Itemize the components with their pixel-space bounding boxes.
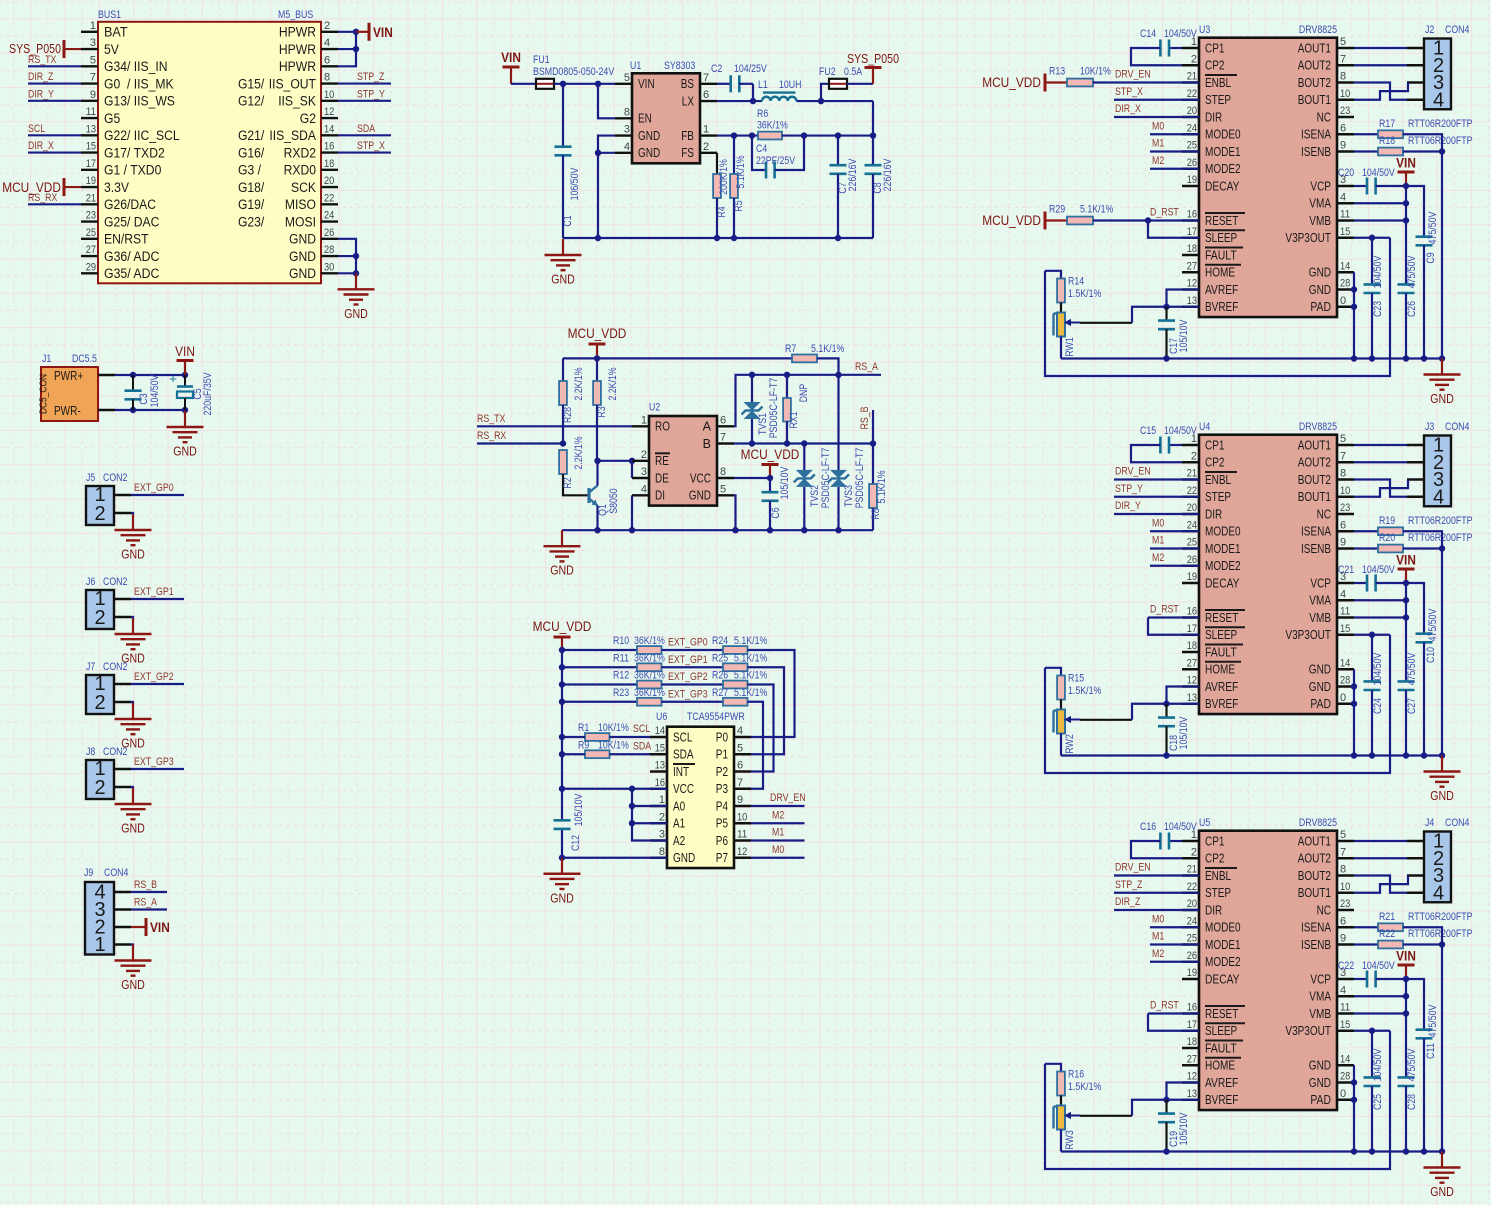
svg-text:AOUT2: AOUT2	[1298, 456, 1331, 470]
svg-text:26: 26	[324, 227, 334, 239]
net label D_RST / wire to RESET SLEEP	[1148, 604, 1199, 635]
svg-text:27: 27	[1187, 1053, 1197, 1065]
resistor R4 200K/1%	[713, 153, 730, 238]
TVS diode TVS2 PSD05C-LF-T7	[794, 444, 832, 531]
svg-text:5: 5	[737, 742, 743, 754]
connector J9 CON4	[84, 867, 131, 956]
svg-text:CON2: CON2	[103, 576, 127, 588]
svg-text:RXD0: RXD0	[284, 163, 316, 178]
svg-text:EXT_GP3: EXT_GP3	[668, 688, 708, 700]
wire VIN to VMA VMB	[1354, 979, 1409, 1077]
capacitor C10 475/50V VIN bulk	[1406, 583, 1439, 759]
svg-text:GND: GND	[1430, 789, 1454, 803]
svg-text:CP2: CP2	[1205, 59, 1225, 73]
svg-text:27: 27	[1187, 657, 1197, 669]
svg-text:15: 15	[655, 742, 665, 754]
svg-text:AVREF: AVREF	[1205, 680, 1239, 694]
svg-text:16: 16	[1187, 606, 1197, 618]
capacitor C12 105/10V	[554, 793, 586, 851]
svg-text:MCU_VDD: MCU_VDD	[533, 618, 592, 634]
svg-text:21: 21	[1187, 468, 1197, 480]
wire R7 to RS_A	[817, 358, 839, 374]
svg-text:8: 8	[324, 72, 330, 84]
svg-text:M2: M2	[772, 809, 784, 821]
svg-text:PAD: PAD	[1310, 697, 1331, 711]
svg-text:C15: C15	[1140, 425, 1156, 437]
svg-text:104/25V: 104/25V	[734, 63, 767, 75]
svg-text:11: 11	[86, 106, 96, 118]
svg-text:DE: DE	[655, 471, 669, 485]
svg-text:EXT_GP3: EXT_GP3	[134, 756, 174, 768]
svg-text:EXT_GP0: EXT_GP0	[134, 482, 174, 494]
svg-text:RS_A: RS_A	[134, 897, 158, 909]
wire BS cap to LX	[750, 84, 756, 104]
svg-text:4: 4	[1433, 882, 1444, 904]
svg-text:R17: R17	[1379, 118, 1395, 130]
svg-text:104/50V: 104/50V	[1362, 564, 1395, 576]
svg-text:22: 22	[1187, 485, 1197, 497]
svg-text:8: 8	[1340, 864, 1346, 876]
svg-text:STP_Z: STP_Z	[1115, 879, 1143, 891]
svg-text:A0: A0	[673, 799, 685, 813]
svg-text:RTT06R200FTP: RTT06R200FTP	[1408, 118, 1473, 130]
svg-text:MCU_VDD: MCU_VDD	[568, 325, 627, 341]
svg-text:RW2: RW2	[1064, 734, 1076, 754]
svg-text:AOUT2: AOUT2	[1298, 852, 1331, 866]
svg-text:R26: R26	[712, 670, 728, 682]
svg-text:VMB: VMB	[1309, 1007, 1331, 1021]
svg-text:NC: NC	[1317, 903, 1331, 917]
svg-text:RTT06R200FTP: RTT06R200FTP	[1408, 515, 1473, 527]
svg-text:26: 26	[1187, 157, 1197, 169]
svg-text:VMA: VMA	[1309, 990, 1331, 1004]
net label M2 / wire to MODE2	[1150, 552, 1199, 566]
svg-text:ISENA: ISENA	[1301, 921, 1332, 935]
wire MCU_VDD pullup rail	[563, 355, 792, 361]
svg-text:DC5.5: DC5.5	[72, 353, 97, 365]
svg-text:R29: R29	[1049, 204, 1065, 216]
svg-text:GND: GND	[289, 266, 316, 281]
svg-text:RESET: RESET	[1205, 611, 1239, 625]
svg-text:R12: R12	[613, 670, 629, 682]
svg-text:BSMD0805-050-24V: BSMD0805-050-24V	[533, 66, 615, 78]
svg-text:15: 15	[1340, 623, 1350, 635]
svg-text:10: 10	[324, 89, 334, 101]
svg-text:DECAY: DECAY	[1205, 972, 1240, 986]
svg-text:J1: J1	[42, 353, 51, 365]
resistor R14 1.5K/1%	[1045, 271, 1101, 313]
svg-text:GND: GND	[638, 146, 660, 160]
svg-text:R4: R4	[716, 206, 728, 217]
resistor R7 5.1K/1% pullup	[785, 343, 844, 362]
wire VIN to FU1	[511, 83, 536, 85]
capacitor C19 105/10V vref	[1158, 1100, 1190, 1155]
svg-text:22: 22	[1187, 881, 1197, 893]
svg-text:GND: GND	[121, 548, 145, 562]
svg-text:EXT_GP2: EXT_GP2	[134, 671, 174, 683]
svg-text:ISENB: ISENB	[1301, 542, 1331, 556]
svg-text:36K/1%: 36K/1%	[634, 635, 665, 647]
wire GND pins chain	[1351, 1065, 1357, 1154]
svg-text:13: 13	[86, 123, 96, 135]
svg-text:17: 17	[1187, 623, 1197, 635]
svg-text:MCU_VDD: MCU_VDD	[982, 74, 1041, 90]
svg-text:CON4: CON4	[1445, 817, 1469, 829]
svg-text:G35/ ADC: G35/ ADC	[104, 266, 160, 281]
net label D_RST / wire to RESET SLEEP	[1093, 207, 1199, 238]
wire VCC node	[734, 475, 773, 481]
svg-text:IIS_OUT: IIS_OUT	[269, 76, 316, 91]
net label EXT_GP2 / wire	[662, 671, 724, 685]
svg-text:STP_Y: STP_Y	[1115, 483, 1143, 495]
svg-text:CON4: CON4	[1445, 421, 1469, 433]
TVS diode TVS1 PSD05C-LF-T7	[742, 375, 781, 444]
svg-text:RS_RX: RS_RX	[28, 192, 58, 204]
connector J3 CON4	[1407, 421, 1469, 508]
capacitor C17 105/10V vref	[1158, 307, 1190, 362]
svg-text:STEP: STEP	[1205, 490, 1231, 504]
svg-text:5: 5	[1340, 36, 1346, 48]
svg-text:RE: RE	[655, 454, 669, 468]
svg-text:M1: M1	[1152, 535, 1164, 547]
net label EXT_GP3 / wire from J8 pin 1	[131, 756, 184, 769]
capacitor C25 104/50V on V3P3OUT	[1364, 1031, 1385, 1155]
net label M0 / wire to MODE0	[1150, 913, 1199, 927]
ground at U6	[544, 858, 581, 906]
connector J7 CON2	[86, 661, 131, 714]
svg-text:226/16V: 226/16V	[882, 158, 894, 191]
svg-text:4: 4	[324, 37, 330, 49]
wire VIN to VMA VMB	[1354, 186, 1409, 284]
wire sense resistors to ground	[1403, 531, 1445, 758]
svg-text:21: 21	[1187, 71, 1197, 83]
svg-text:DIR_Y: DIR_Y	[1115, 500, 1141, 512]
svg-text:7: 7	[737, 777, 743, 789]
wire V3P3OUT loop to R15	[1045, 635, 1390, 773]
svg-text:STP_X: STP_X	[1115, 86, 1143, 98]
svg-text:13: 13	[655, 760, 665, 772]
svg-text:G25/ DAC: G25/ DAC	[104, 214, 160, 229]
svg-text:STP_Z: STP_Z	[357, 71, 385, 83]
svg-text:U4: U4	[1199, 421, 1210, 433]
svg-text:17: 17	[1187, 1019, 1197, 1031]
wire U3 ground rail	[1061, 357, 1442, 359]
wire GND pins 26/28/30	[338, 239, 359, 277]
potentiometer RW2	[1054, 710, 1081, 756]
svg-text:P4: P4	[716, 799, 728, 813]
svg-text:VMB: VMB	[1309, 214, 1331, 228]
svg-text:28: 28	[1340, 278, 1350, 290]
net label RS_B rotated	[859, 407, 871, 430]
svg-text:104/50V: 104/50V	[1372, 255, 1384, 288]
capacitor C24 104/50V on V3P3OUT	[1364, 635, 1385, 759]
svg-text:MCU_VDD: MCU_VDD	[741, 446, 800, 462]
svg-text:MODE1: MODE1	[1205, 145, 1241, 159]
capacitor C6 105/10V	[762, 466, 792, 533]
svg-text:MCU_VDD: MCU_VDD	[982, 212, 1041, 228]
svg-text:22: 22	[324, 192, 334, 204]
wire BOUT1 to J4 pin 3	[1354, 876, 1408, 893]
resistor R19 RTT06R200FTP sense A	[1354, 515, 1473, 535]
svg-text:R6: R6	[757, 108, 768, 120]
svg-text:R3: R3	[596, 406, 608, 417]
wire EXT_GP2 to U6 P2	[748, 685, 774, 772]
wire AOUT1 to J3 pin 1	[1354, 444, 1407, 446]
svg-text:R23: R23	[613, 687, 629, 699]
svg-text:18: 18	[1187, 243, 1197, 255]
svg-text:DRV8825: DRV8825	[1299, 24, 1337, 36]
power flag SYS_P050 at BUS1 pin 3	[9, 40, 81, 58]
resistor R23 36K/1% pullup	[562, 687, 665, 706]
wire AVREF BVREF node	[1163, 290, 1199, 310]
capacitor C2 104/25V bootstrap	[711, 63, 767, 92]
svg-text:FAULT: FAULT	[1205, 248, 1237, 262]
svg-text:19: 19	[1187, 571, 1197, 583]
ground at BUS1	[338, 273, 375, 321]
svg-text:475/50V: 475/50V	[1406, 652, 1418, 685]
svg-text:GND: GND	[551, 273, 575, 287]
wire FU1 to U1 VIN pin	[554, 81, 615, 87]
svg-text:28: 28	[1340, 1071, 1350, 1083]
svg-text:V3P3OUT: V3P3OUT	[1285, 1024, 1331, 1038]
svg-text:10: 10	[1340, 88, 1350, 100]
svg-text:P7: P7	[716, 851, 728, 865]
svg-text:105/10V: 105/10V	[573, 793, 585, 826]
svg-text:104/50V: 104/50V	[149, 374, 161, 407]
wire GND pins chain	[1351, 669, 1357, 758]
svg-text:11: 11	[1340, 209, 1350, 221]
svg-text:U1: U1	[630, 60, 641, 72]
fuse FU2 0.5A	[819, 66, 863, 89]
net label STP_X / wire to STEP	[1114, 86, 1199, 100]
svg-text:475/50V: 475/50V	[1427, 211, 1439, 244]
wire U1 GND pins	[595, 136, 615, 242]
svg-text:BOUT1: BOUT1	[1298, 490, 1331, 504]
svg-text:8: 8	[659, 846, 665, 858]
net label DIR_Z / wire to DIR	[1114, 896, 1199, 910]
svg-text:NC: NC	[1317, 507, 1331, 521]
svg-text:6: 6	[703, 89, 709, 101]
svg-text:IIS_SK: IIS_SK	[278, 94, 316, 109]
net label EXT_GP3 / wire	[662, 688, 724, 702]
svg-text:RTT06R200FTP: RTT06R200FTP	[1408, 911, 1473, 923]
net label SDA / wire to BUS1 pin 14	[338, 123, 391, 136]
ground at J8	[115, 788, 152, 836]
svg-text:BOUT1: BOUT1	[1298, 886, 1331, 900]
svg-text:A1: A1	[673, 817, 685, 831]
svg-text:ENBL: ENBL	[1205, 869, 1231, 883]
fuse FU1 BSMD0805-050-24V	[533, 54, 615, 89]
net label RS_B / wire from J9 pin 4	[131, 879, 167, 892]
TVS diode TVS3 PSD05C-LF-T7	[828, 375, 866, 530]
svg-text:G34/ IIS_IN: G34/ IIS_IN	[104, 59, 168, 74]
svg-text:M0: M0	[1152, 517, 1164, 529]
svg-text:15: 15	[86, 141, 96, 153]
svg-text:SCK: SCK	[291, 180, 316, 195]
svg-text:R2: R2	[562, 477, 574, 488]
svg-text:12: 12	[1187, 278, 1197, 290]
svg-text:105/10V: 105/10V	[1178, 319, 1190, 352]
svg-text:C27: C27	[1406, 698, 1418, 714]
svg-text:105/10V: 105/10V	[1178, 716, 1190, 749]
svg-text:MODE0: MODE0	[1205, 525, 1241, 539]
capacitor C26 475/50V VIN bypass	[1398, 255, 1419, 362]
svg-text:C9: C9	[1425, 252, 1437, 263]
svg-text:5.1K/1%: 5.1K/1%	[1080, 204, 1113, 216]
wire U1 ground rail	[563, 235, 873, 241]
svg-text:5V: 5V	[104, 42, 119, 57]
capacitor C7 226/16V	[830, 136, 860, 238]
svg-text:AOUT1: AOUT1	[1298, 834, 1331, 848]
svg-text:5.1K/1%: 5.1K/1%	[811, 343, 844, 355]
svg-text:SLEEP: SLEEP	[1205, 231, 1237, 245]
svg-text:16: 16	[655, 777, 665, 789]
net label SCL / wire to BUS1 pin 13	[28, 123, 81, 136]
svg-text:MODE1: MODE1	[1205, 938, 1241, 952]
wire VIN to VMA VMB	[1354, 583, 1409, 681]
ground at J5	[115, 514, 152, 562]
svg-text:AOUT2: AOUT2	[1298, 59, 1331, 73]
svg-text:14: 14	[1340, 657, 1350, 669]
svg-text:29: 29	[86, 261, 96, 273]
svg-text:105/10V: 105/10V	[1178, 1112, 1190, 1145]
net label DRV_EN / wire from U6 P4	[751, 792, 806, 806]
svg-text:11: 11	[1340, 606, 1350, 618]
svg-text:CON2: CON2	[103, 746, 127, 758]
svg-text:24: 24	[1187, 519, 1197, 531]
svg-text:2: 2	[641, 449, 647, 461]
svg-text:26: 26	[1187, 950, 1197, 962]
svg-text:C26: C26	[1406, 301, 1418, 317]
wire VCC row at U6	[562, 786, 667, 792]
net label DRV_EN / wire to ENBL	[1114, 466, 1199, 480]
svg-text:16: 16	[1187, 1002, 1197, 1014]
capacitor C11 475/50V VIN bulk	[1406, 979, 1439, 1155]
svg-text:RO: RO	[655, 420, 670, 434]
svg-text:VIN: VIN	[1396, 155, 1416, 171]
svg-text:BAT: BAT	[104, 25, 128, 40]
svg-text:0: 0	[1340, 692, 1346, 704]
svg-text:2: 2	[1191, 846, 1197, 858]
wire RE DE node	[594, 458, 635, 534]
svg-text:DC5_CON: DC5_CON	[38, 374, 50, 414]
svg-text:4: 4	[737, 725, 743, 737]
capacitor C27 475/50V VIN bypass	[1398, 652, 1419, 759]
svg-text:GND: GND	[1309, 1059, 1331, 1073]
svg-text:RS_TX: RS_TX	[28, 54, 57, 66]
resistor R9 10K/1% SDA pullup	[562, 739, 650, 758]
svg-text:G13/ IIS_WS: G13/ IIS_WS	[104, 94, 175, 109]
svg-text:NC: NC	[1317, 110, 1331, 124]
svg-text:EN: EN	[638, 112, 652, 126]
wire FB node	[717, 132, 758, 138]
svg-text:EXT_GP1: EXT_GP1	[668, 654, 708, 666]
svg-text:16: 16	[324, 141, 334, 153]
capacitor C21 104/50V VCP	[1338, 564, 1406, 592]
svg-text:A2: A2	[673, 834, 685, 848]
svg-text:19: 19	[1187, 174, 1197, 186]
svg-text:M5_BUS: M5_BUS	[278, 9, 313, 21]
svg-text:475/50V: 475/50V	[1406, 255, 1418, 288]
svg-text:SY8303: SY8303	[664, 60, 695, 72]
net label M0 / wire from U6 P7	[751, 844, 805, 858]
svg-text:SLEEP: SLEEP	[1205, 628, 1237, 642]
power flag SYS_P050 output	[847, 52, 899, 84]
svg-text:J6: J6	[86, 576, 95, 588]
ground at U4	[1424, 756, 1461, 804]
svg-text:J7: J7	[86, 661, 95, 673]
svg-text:R13: R13	[1049, 66, 1065, 78]
svg-text:104/50V: 104/50V	[1164, 425, 1197, 437]
svg-text:1.5K/1%: 1.5K/1%	[1068, 685, 1101, 697]
svg-text:C22: C22	[1338, 960, 1354, 972]
svg-text:PAD: PAD	[1310, 1093, 1331, 1107]
svg-text:8: 8	[1340, 468, 1346, 480]
net label DIR_Y / wire to BUS1 pin 9	[28, 88, 81, 101]
connector J6 CON2	[86, 576, 131, 629]
wire V3P3OUT loop to R14	[1045, 238, 1390, 376]
svg-text:200K/1%: 200K/1%	[718, 159, 730, 195]
svg-text:DRV_EN: DRV_EN	[1115, 466, 1151, 478]
capacitor C16 104/50V charge pump	[1131, 821, 1197, 858]
svg-text:L1: L1	[758, 79, 768, 91]
svg-text:AVREF: AVREF	[1205, 283, 1239, 297]
svg-text:104/50V: 104/50V	[1362, 167, 1395, 179]
svg-text:14: 14	[1340, 1053, 1350, 1065]
svg-text:R20: R20	[1379, 532, 1395, 544]
ground at U5	[1424, 1152, 1461, 1200]
svg-text:R5: R5	[733, 200, 745, 211]
svg-text:C28: C28	[1406, 1094, 1418, 1110]
svg-text:2.2K/1%: 2.2K/1%	[573, 367, 585, 400]
svg-text:5: 5	[1340, 829, 1346, 841]
connector J1 DC5.5 power jack	[38, 353, 116, 421]
svg-text:C4: C4	[756, 143, 767, 155]
svg-text:475/50V: 475/50V	[1427, 1004, 1439, 1037]
svg-text:GND: GND	[550, 891, 574, 905]
svg-text:G2: G2	[300, 111, 316, 126]
capacitor C28 475/50V VIN bypass	[1398, 1048, 1419, 1155]
wire B pin line	[734, 440, 876, 446]
resistor R5 5.1K/1%	[730, 136, 747, 238]
net label DIR_X / wire to BUS1 pin 15	[28, 140, 81, 153]
svg-text:14: 14	[655, 725, 665, 737]
svg-text:FS: FS	[681, 146, 694, 160]
svg-text:J2: J2	[1425, 24, 1434, 36]
svg-text:V3P3OUT: V3P3OUT	[1285, 628, 1331, 642]
svg-text:6: 6	[720, 414, 726, 426]
svg-text:MODE2: MODE2	[1205, 955, 1241, 969]
wire U2 GND pin to rail	[732, 495, 738, 533]
svg-text:CP1: CP1	[1205, 41, 1225, 55]
net label M1 / wire from U6 P6	[751, 827, 805, 841]
wire AOUT2 to J4 pin 2	[1354, 857, 1407, 859]
svg-text:EXT_GP0: EXT_GP0	[668, 637, 708, 649]
capacitor C3 104/50V	[125, 374, 162, 410]
svg-text:2.2K/1%: 2.2K/1%	[607, 367, 619, 400]
svg-text:M0: M0	[772, 844, 784, 856]
net label M1 / wire to MODE1	[1150, 931, 1199, 945]
svg-text:G36/ ADC: G36/ ADC	[104, 249, 160, 264]
svg-text:C24: C24	[1372, 698, 1384, 714]
svg-text:PSD05C-LF-T7: PSD05C-LF-T7	[768, 378, 780, 439]
svg-text:GND: GND	[1309, 1076, 1331, 1090]
svg-text:6: 6	[1340, 915, 1346, 927]
svg-text:VCP: VCP	[1310, 972, 1331, 986]
svg-text:GND: GND	[289, 232, 316, 247]
svg-text:VCP: VCP	[1310, 576, 1331, 590]
svg-text:FAULT: FAULT	[1205, 645, 1237, 659]
